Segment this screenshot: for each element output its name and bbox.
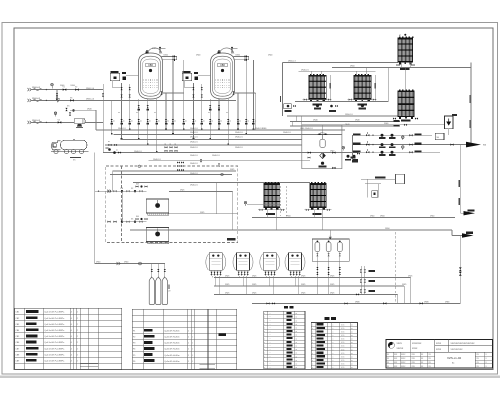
- manifold valve below header: [218, 105, 220, 108]
- svg-text:1: 1: [192, 355, 193, 357]
- vessel relief riser: [231, 48, 233, 54]
- drop pipe x166: [165, 93, 167, 130]
- svg-text:CB1: CB1: [16, 312, 20, 314]
- svg-text:DN25: DN25: [225, 284, 229, 286]
- upper valve b: [201, 94, 203, 97]
- svg-text:DN40: DN40: [313, 120, 318, 122]
- valve on line y160.7: [200, 159, 202, 162]
- riser pipe x103: [102, 84, 104, 153]
- svg-text:~~: ~~: [269, 349, 271, 351]
- svg-text:xx: xx: [208, 112, 210, 114]
- UV unit box with down arrow: [445, 116, 454, 129]
- drain valve stack b: [459, 272, 462, 276]
- svg-text:xx: xx: [296, 367, 298, 369]
- dosing pumps to trains: [347, 155, 350, 158]
- svg-text:xx: xx: [113, 120, 115, 122]
- drop pipe tick: [237, 129, 239, 131]
- svg-text:CB5: CB5: [16, 336, 20, 338]
- svg-text:DN25: DN25: [230, 169, 234, 171]
- svg-text:xx: xx: [226, 112, 228, 114]
- strainer on inlet 2: [56, 99, 60, 103]
- svg-text:DN25: DN25: [252, 276, 256, 278]
- column bottom header: [348, 99, 377, 101]
- sampling drop 2: [157, 264, 159, 278]
- svg-text:xx: xx: [170, 144, 172, 146]
- inner frame vertical x112.7: [112, 171, 114, 191]
- supply line to column A: [283, 61, 398, 63]
- train gauge 2: [402, 146, 405, 149]
- drop pipe x183.7: [183, 60, 185, 130]
- valve on riser x103: [102, 93, 104, 96]
- svg-text:xx: xx: [351, 328, 353, 330]
- line end label a: [394, 120, 400, 122]
- vessel right outlet pipe: [234, 92, 256, 94]
- legend table (bottom center): [284, 306, 288, 309]
- column B side label: [329, 83, 330, 89]
- drop pipe tick: [227, 143, 229, 145]
- valve cluster above pump b: [69, 112, 71, 115]
- svg-text:DN50: DN50: [350, 66, 355, 68]
- svg-text:DN80: DN80: [355, 302, 360, 304]
- svg-text:xx: xx: [131, 120, 133, 122]
- header left valve b: [272, 302, 275, 304]
- riser pipe x96: [95, 110, 97, 130]
- drop pipe tick: [165, 129, 167, 131]
- vessel dome swoop pipe: [220, 48, 235, 54]
- train manifold vertical: [352, 135, 354, 160]
- column F label: [313, 213, 322, 215]
- svg-text:xx: xx: [296, 338, 298, 340]
- filter drain 3: [339, 261, 341, 294]
- drop pipe x238: [237, 93, 239, 130]
- column side valve L: [349, 98, 352, 100]
- dosing skid unit 1: [206, 253, 226, 277]
- svg-text:Q=5m3/h H=30m: Q=5m3/h H=30m: [164, 355, 180, 357]
- svg-text:DN40-2.0: DN40-2.0: [153, 159, 161, 161]
- svg-text:~~: ~~: [269, 335, 271, 337]
- svg-text:xx: xx: [296, 349, 298, 351]
- valve on drop pipe x210.2: [209, 119, 211, 122]
- svg-text:DN25: DN25: [152, 48, 156, 50]
- line into utility box: [361, 178, 396, 180]
- column D valve L: [393, 117, 396, 119]
- header left valve a: [266, 302, 269, 304]
- collection header y303: [252, 302, 460, 304]
- svg-text:XXXXXXXXX: XXXXXXXXX: [451, 349, 464, 351]
- dosing skid unit 2: [233, 253, 253, 277]
- svg-text:~~: ~~: [269, 320, 271, 322]
- svg-text:P3: P3: [133, 343, 135, 345]
- column F valve R: [327, 209, 330, 211]
- main equipment table (bottom center-right): [325, 317, 330, 320]
- svg-text:DN40-2.0: DN40-2.0: [118, 128, 126, 130]
- dosing skid unit 3: [260, 253, 280, 277]
- valve on drop pipe x166: [165, 119, 167, 122]
- valve actuator mark: [172, 123, 175, 125]
- svg-text:xx: xx: [351, 364, 353, 366]
- riser x282.6: [282, 62, 284, 116]
- svg-text:~~: ~~: [269, 363, 271, 365]
- staircase drop 1: [410, 278, 412, 304]
- drop pipe x172.9: [172, 60, 174, 135]
- drop pipe tick: [138, 138, 140, 140]
- mid supply line y121.6: [290, 121, 400, 123]
- signal line to loop: [247, 204, 281, 206]
- junction circle: [139, 262, 142, 265]
- waste outlet arrow 1: [464, 211, 476, 215]
- svg-text:P2: P2: [133, 337, 135, 339]
- svg-text:xx: xx: [296, 320, 298, 322]
- columns bottom connecting line: [295, 100, 388, 102]
- svg-text:xx: xx: [296, 363, 298, 365]
- carbon column B: [309, 74, 326, 102]
- mid supply line y116: [287, 115, 398, 117]
- svg-text:~~: ~~: [269, 317, 271, 319]
- valve on drop pipe x147.7: [147, 119, 149, 122]
- dashed signal line a: [280, 186, 282, 216]
- svg-text:DN50: DN50: [330, 151, 334, 153]
- right drain valve cluster: [360, 269, 362, 272]
- svg-text:DN40-2.0: DN40-2.0: [190, 163, 198, 165]
- riser x282 label: [280, 96, 281, 102]
- inlet pipe 1: [31, 89, 103, 91]
- svg-text:DN40-2.0: DN40-2.0: [190, 173, 198, 175]
- skid drain bus 3: [214, 293, 398, 295]
- svg-text:4: 4: [71, 318, 72, 320]
- train gauge 1: [402, 136, 405, 139]
- line end label b: [394, 124, 400, 126]
- filter group feed from transfer line: [329, 230, 331, 235]
- softener column F (center): [310, 182, 326, 210]
- svg-text:CB7: CB7: [16, 348, 20, 350]
- svg-text:xx: xx: [296, 317, 298, 319]
- dosing header y174.5: [110, 174, 232, 176]
- cluster at dashed box left: [177, 162, 180, 164]
- long transfer line y230: [130, 229, 452, 231]
- svg-text:Q=0.5m3/h P=0.8MPa: Q=0.5m3/h P=0.8MPa: [44, 330, 65, 332]
- svg-text:CB4: CB4: [16, 330, 20, 332]
- svg-text:XXXXX: XXXXX: [397, 348, 404, 350]
- mid valve cluster on buses: [165, 146, 168, 148]
- valve cluster right of instrument box: [122, 72, 126, 74]
- drop pipe tick: [172, 133, 174, 135]
- svg-text:DN40-2.0: DN40-2.0: [190, 128, 198, 130]
- right drain vertical x460 lower: [459, 236, 461, 304]
- column C right tie line: [387, 67, 389, 101]
- svg-text:XZS-xx-02: XZS-xx-02: [447, 356, 462, 360]
- under-vessel header (continuation of inlet 2): [103, 99, 236, 101]
- valve actuator mark: [146, 123, 149, 125]
- svg-text:DN40-2.0: DN40-2.0: [190, 147, 198, 149]
- svg-text:DN40: DN40: [87, 108, 92, 110]
- crossover inlet1-inlet2: [56, 90, 58, 101]
- drop pipe x156.7: [156, 99, 158, 153]
- manifold valve below header: [138, 105, 140, 108]
- loop feed drop: [322, 125, 324, 134]
- svg-text:2: 2: [188, 343, 189, 345]
- valve on drop pipe x138.7: [138, 119, 140, 122]
- valve on drop pipe x183.7: [183, 119, 185, 122]
- dosing vertical x216: [215, 182, 217, 213]
- svg-text:V4: V4: [58, 119, 60, 121]
- column A outlet valve R: [412, 64, 415, 66]
- svg-text:DN50-0.3: DN50-0.3: [32, 120, 40, 122]
- column D mid band: [398, 104, 414, 106]
- inline filter box: [435, 133, 444, 140]
- valve actuator mark: [182, 123, 185, 125]
- neutralization loop frame: [302, 125, 342, 169]
- drop pipe x219: [218, 99, 220, 130]
- truck ground line: [70, 157, 81, 159]
- column B side line: [330, 75, 332, 100]
- drop pipe tick: [193, 138, 195, 140]
- svg-text:xx: xx: [296, 328, 298, 330]
- svg-text:XXXXXXXXXXXXXXXXXX: XXXXXXXXXXXXXXXXXX: [451, 343, 476, 345]
- vessel outlet valve right: [232, 91, 234, 94]
- valve on drop pipe x219: [218, 119, 220, 122]
- drop pipe tick: [245, 133, 247, 135]
- svg-text:xx: xx: [351, 367, 353, 369]
- column C side label: [374, 83, 375, 89]
- agitator small tank T1: [318, 134, 328, 148]
- vessel top nozzle header: [234, 56, 249, 58]
- valve on drop pipe x156.7: [156, 119, 158, 122]
- valve on inlet 1a: [63, 88, 67, 91]
- column label: [358, 103, 368, 105]
- drop pipe tick: [183, 129, 185, 131]
- svg-text:xx: xx: [108, 141, 110, 143]
- svg-text:DN40-2.0: DN40-2.0: [301, 69, 309, 71]
- svg-text:xx: xx: [351, 356, 353, 358]
- UV unit drop line: [448, 129, 450, 136]
- svg-text:DN40-2.0: DN40-2.0: [134, 151, 142, 153]
- valve actuator mark: [237, 123, 240, 125]
- svg-text:xx: xx: [220, 120, 222, 122]
- valve actuator mark: [120, 123, 123, 125]
- svg-text:2: 2: [77, 354, 78, 356]
- svg-text:2: 2: [77, 342, 78, 344]
- svg-text:DN50: DN50: [124, 262, 128, 264]
- svg-text:DN40-2.0: DN40-2.0: [212, 155, 220, 157]
- metering pump dot: [72, 109, 74, 111]
- svg-text:DN40: DN40: [268, 55, 272, 57]
- svg-text:4: 4: [71, 348, 72, 350]
- pump train line y152.2: [353, 151, 441, 153]
- valve actuator mark: [155, 123, 158, 125]
- sampling drop 3: [164, 264, 166, 278]
- svg-text:CB8: CB8: [16, 354, 20, 356]
- svg-text:~~: ~~: [269, 331, 271, 333]
- svg-text:DN25: DN25: [301, 293, 305, 295]
- column E bottom header: [258, 209, 285, 211]
- upper valve a: [192, 87, 194, 90]
- svg-text:DN25: DN25: [200, 212, 204, 214]
- svg-text:XXXX: XXXX: [436, 349, 442, 351]
- svg-text:AT: AT: [399, 34, 401, 37]
- upper valve b: [129, 94, 131, 97]
- drain valve stack a: [459, 267, 462, 271]
- svg-text:DN40-2.0: DN40-2.0: [235, 137, 243, 139]
- svg-text:4: 4: [71, 354, 72, 356]
- filter group enclosure: [312, 239, 349, 261]
- svg-text:DN40: DN40: [164, 55, 168, 57]
- tie line b: [291, 122, 293, 127]
- manifold valve below header: [209, 105, 211, 108]
- equipment table 1 (bottom left): [15, 308, 122, 369]
- valve on inlet 2: [70, 99, 74, 102]
- svg-text:DN40-2.0: DN40-2.0: [190, 142, 198, 144]
- valve on skid bus 3: [356, 293, 359, 295]
- svg-text:DN25: DN25: [180, 190, 184, 192]
- dosing skid unit 4: [285, 253, 305, 277]
- pipe inlet connection 2: [28, 99, 30, 102]
- svg-text:CB6: CB6: [16, 342, 20, 344]
- svg-text:xx: xx: [351, 335, 353, 337]
- dashed signal line b: [286, 186, 288, 216]
- svg-text:xx: xx: [154, 112, 156, 114]
- loop valve bottom: [332, 167, 335, 169]
- svg-text:DN50: DN50: [370, 216, 374, 218]
- dosing header line 2: [168, 213, 238, 215]
- svg-text:DN40-2.0: DN40-2.0: [235, 147, 243, 149]
- svg-text:1: 1: [192, 361, 193, 363]
- drop pipe tick: [218, 129, 220, 131]
- drop pipe tick: [121, 138, 123, 140]
- valve actuator mark: [110, 123, 113, 125]
- valve actuator mark: [245, 123, 248, 125]
- valve actuator mark: [201, 123, 204, 125]
- collection header valve 0: [344, 302, 347, 304]
- svg-text:V2: V2: [75, 87, 77, 89]
- carbon column C: [354, 74, 371, 102]
- svg-text:xx: xx: [351, 324, 353, 326]
- drop pipe x147.7: [147, 99, 149, 145]
- svg-text:xx: xx: [296, 313, 298, 315]
- drop pipe tick: [156, 151, 158, 153]
- svg-text:DN50-2.0: DN50-2.0: [345, 114, 353, 116]
- page bottom shadow edge: [0, 376, 500, 378]
- svg-text:DN50-1.0: DN50-1.0: [86, 88, 94, 90]
- svg-text:DN25: DN25: [225, 293, 229, 295]
- valve actuator mark: [192, 123, 195, 125]
- svg-text:DN25: DN25: [330, 293, 334, 295]
- drop pipe x138.7: [138, 99, 140, 140]
- dosing header y182.4: [133, 181, 310, 183]
- svg-text:DN25: DN25: [252, 293, 256, 295]
- column F drop a: [313, 210, 315, 218]
- sampling valve 3: [164, 269, 166, 272]
- drop pipe x129.7: [129, 84, 131, 130]
- svg-text:~~: ~~: [269, 342, 271, 344]
- column D label: [401, 120, 411, 122]
- svg-text:xx: xx: [158, 120, 160, 122]
- column D valve R: [415, 117, 418, 119]
- utility box: [396, 174, 405, 184]
- svg-text:DN25: DN25: [408, 276, 412, 278]
- svg-text:0.55: 0.55: [341, 332, 344, 334]
- svg-text:DN25: DN25: [330, 284, 334, 286]
- svg-text:1: 1: [192, 343, 193, 345]
- loop gauge: [342, 146, 345, 149]
- dashed box label: [227, 238, 236, 241]
- column side valve R: [373, 98, 376, 100]
- svg-text:xx: xx: [140, 120, 142, 122]
- vessel relief riser: [159, 48, 161, 54]
- valve cluster above pump a: [65, 108, 67, 111]
- svg-text:xx: xx: [351, 332, 353, 334]
- skid drain bus 2: [214, 285, 404, 287]
- svg-text:Q=5m3/h H=30m: Q=5m3/h H=30m: [164, 337, 180, 339]
- filter drain 1: [316, 261, 318, 294]
- dashed boundary line: [395, 232, 397, 303]
- svg-text:DN40-2.0: DN40-2.0: [190, 132, 198, 134]
- pipe inlet connection 1: [28, 88, 30, 91]
- svg-text:xx: xx: [351, 346, 353, 348]
- loop pump label: [319, 166, 327, 168]
- svg-text:xx: xx: [229, 120, 231, 122]
- svg-text:xx: xx: [296, 331, 298, 333]
- dosing vertical x232.6: [232, 192, 234, 231]
- column E label: [266, 213, 275, 215]
- svg-text:1: 1: [192, 331, 193, 333]
- filter column A (top right): [398, 37, 414, 65]
- svg-text:xx: xx: [247, 120, 249, 122]
- drain label b: [459, 198, 460, 205]
- svg-text:Q=0.5m3/h P=0.8MPa: Q=0.5m3/h P=0.8MPa: [44, 354, 65, 356]
- svg-text:Q=0.5m3/h P=0.8MPa: Q=0.5m3/h P=0.8MPa: [44, 318, 65, 320]
- valve on inlet 3: [58, 121, 62, 124]
- svg-text:xx: xx: [195, 120, 197, 122]
- vessel top nozzle header: [162, 56, 177, 58]
- svg-text:XXXX: XXXX: [412, 348, 418, 350]
- crossover valve b: [56, 97, 58, 100]
- column bottom header: [303, 99, 332, 101]
- svg-text:DN40: DN40: [355, 120, 360, 122]
- upper valve a: [201, 87, 203, 90]
- metering pump row upper: [136, 186, 139, 188]
- staircase drop 2: [403, 286, 405, 303]
- svg-text:JLB: JLB: [136, 216, 139, 218]
- valve on loop-UV line: [404, 124, 407, 126]
- svg-text:xx: xx: [296, 324, 298, 326]
- svg-text:Q=5m3/h H=30m: Q=5m3/h H=30m: [164, 361, 180, 363]
- svg-text:DN25: DN25: [402, 284, 406, 286]
- vessel dome swoop pipe: [148, 48, 163, 54]
- svg-text:Q=5m3/h H=30m: Q=5m3/h H=30m: [164, 331, 180, 333]
- drop pipe x201.8: [201, 84, 203, 130]
- svg-text:2: 2: [188, 337, 189, 339]
- svg-text:4: 4: [71, 342, 72, 344]
- svg-text:2: 2: [77, 336, 78, 338]
- svg-text:Q=5m3/h H=30m: Q=5m3/h H=30m: [164, 349, 180, 351]
- svg-text:2: 2: [188, 361, 189, 363]
- drop pipe tick: [129, 129, 131, 131]
- vessel control instrument box: [183, 71, 191, 73]
- sampling tube 1: [149, 276, 154, 305]
- valve on drop pipe x246.2: [245, 119, 247, 122]
- dosing pump cluster: [107, 221, 110, 223]
- svg-text:xx: xx: [167, 120, 169, 122]
- svg-text:DN80: DN80: [445, 302, 449, 304]
- chemical dosing skid dashed enclosure: [106, 166, 238, 243]
- filter cartridge 1: [315, 242, 320, 252]
- sampling valve 1: [151, 269, 153, 272]
- skid drain bus 1: [214, 277, 411, 279]
- bus header y139.5: [121, 139, 302, 141]
- svg-text:DN25: DN25: [301, 284, 305, 286]
- svg-text:xx: xx: [165, 144, 167, 146]
- softener vessel CBR-1: [139, 50, 163, 99]
